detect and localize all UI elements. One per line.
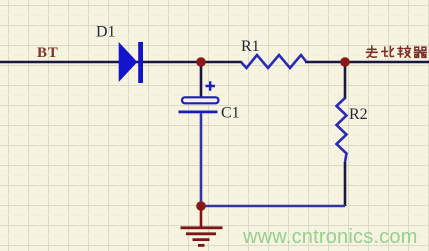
svg-text:www.cntronics.com: www.cntronics.com	[242, 226, 418, 248]
svg-text:D1: D1	[96, 24, 116, 41]
svg-text:R2: R2	[349, 106, 368, 123]
svg-text:R1: R1	[241, 38, 260, 55]
svg-text:C1: C1	[221, 105, 240, 122]
svg-text:BT: BT	[37, 45, 59, 61]
